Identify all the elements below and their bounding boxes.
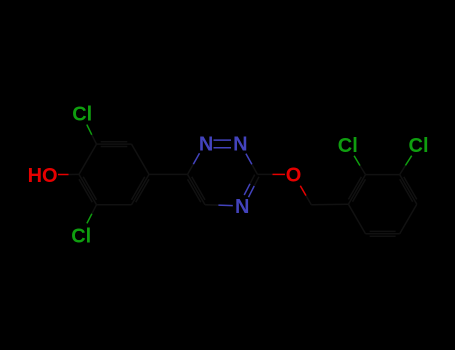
svg-text:HO: HO <box>28 165 58 187</box>
svg-text:Cl: Cl <box>338 135 358 157</box>
svg-text:N: N <box>233 134 247 156</box>
svg-text:Cl: Cl <box>72 103 92 125</box>
svg-text:Cl: Cl <box>409 135 429 157</box>
svg-text:O: O <box>286 165 302 187</box>
svg-text:Cl: Cl <box>71 225 91 247</box>
svg-text:N: N <box>235 196 249 218</box>
svg-text:N: N <box>199 133 213 155</box>
